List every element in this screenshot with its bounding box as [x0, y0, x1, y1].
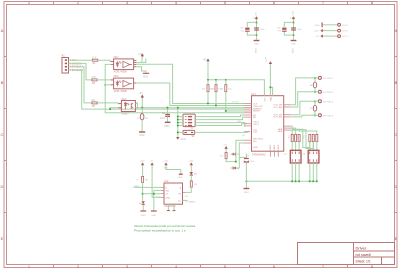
svg-text:TA8435H/Q: TA8435H/Q — [252, 153, 266, 157]
svg-text:GND: GND — [253, 147, 258, 149]
svg-text:GND: GND — [291, 44, 296, 46]
svg-text:C7: C7 — [247, 156, 251, 158]
led D4 — [139, 201, 145, 205]
svg-text:+V_PANEL: +V_PANEL — [185, 200, 197, 203]
svg-text:B: B — [395, 80, 398, 85]
svg-text:E: E — [395, 236, 398, 241]
svg-text:+5V: +5V — [255, 12, 257, 16]
svg-text:GNDP: GNDP — [270, 144, 272, 150]
svg-text:1/1: 1/1 — [366, 260, 371, 264]
wire OUT_BP to motor3 — [291, 101, 318, 114]
svg-text:GND: GND — [178, 177, 183, 179]
frame row letters left — [1, 28, 4, 241]
svg-text:VB: VB — [310, 108, 313, 110]
junction col2 node — [153, 193, 155, 195]
svg-text:D5: D5 — [194, 174, 198, 176]
junction at R2 branch — [104, 84, 106, 86]
wire D2 to MO wire — [236, 167, 239, 169]
wire MO down right to cap — [239, 156, 246, 158]
svg-text:+24V: +24V — [163, 161, 169, 163]
diode D5 — [190, 165, 198, 175]
svg-text:100u: 100u — [250, 161, 256, 163]
svg-text:B: B — [1, 80, 4, 85]
svg-text:EN: EN — [92, 99, 96, 102]
svg-text:GND: GND — [139, 134, 145, 137]
+24V arrow left — [320, 29, 323, 32]
svg-text:GNDP: GNDP — [274, 144, 276, 150]
svg-text:+5V: +5V — [203, 60, 208, 62]
svg-text:MO: MO — [253, 141, 257, 143]
wire R2 out corner down — [97, 79, 114, 81]
svg-text:GND: GND — [255, 48, 257, 53]
IC1 bottom pin names — [270, 144, 280, 150]
svg-text:Obvod znizovania prudu pri nec: Obvod znizovania prudu pri necinnosti mo… — [134, 224, 196, 228]
svg-text:+5V: +5V — [150, 161, 154, 163]
svg-text:100n: 100n — [160, 118, 166, 120]
wire OK1 gnd — [136, 67, 146, 73]
junction S2 left — [177, 132, 179, 134]
wire PROTECT up to IC — [236, 140, 244, 161]
svg-text:R4: R4 — [202, 89, 206, 91]
svg-text:OUT_AM: OUT_AM — [273, 106, 282, 109]
down arrow supply at switch common — [176, 137, 186, 141]
svg-text:+5V: +5V — [252, 18, 256, 20]
pin header JP1 — [314, 23, 349, 39]
supply circuit 1: +5V with caps C3 C4 — [241, 12, 266, 53]
ground below D4 — [140, 211, 146, 217]
svg-text:M2: M2 — [253, 117, 257, 119]
switch S2 — [183, 130, 195, 138]
svg-text:10k: 10k — [228, 89, 232, 91]
supply arrow above OK3 — [139, 93, 145, 99]
junction R5 top — [215, 79, 217, 81]
frame column numbers top — [28, 0, 374, 5]
IC1 top pins — [264, 89, 272, 96]
wire OK1 vcc to arrow — [141, 57, 143, 62]
wire arrow to OK3 output node — [141, 98, 143, 107]
ground below bus — [244, 189, 250, 195]
svg-text:ACPL-W50K: ACPL-W50K — [114, 71, 128, 74]
svg-text:R6: R6 — [220, 89, 224, 91]
svg-text:0R5: 0R5 — [304, 135, 306, 138]
wire node to IC2 — [143, 193, 161, 195]
motor pin 1 — [318, 76, 321, 79]
IC2 regulator box — [164, 180, 183, 208]
sense resistor run NFA — [291, 126, 292, 130]
ground below D3 — [139, 132, 145, 137]
resistor R6 — [220, 80, 244, 112]
svg-text:C8: C8 — [242, 135, 246, 137]
pin circle 1 — [338, 35, 341, 38]
svg-text:T1: T1 — [284, 154, 287, 156]
wire MO up to IC — [239, 143, 244, 168]
run to group B — [292, 129, 310, 147]
diode D1 — [231, 153, 241, 156]
svg-text:+24V: +24V — [314, 31, 320, 33]
wire gnd pin — [323, 24, 338, 26]
IC2 right pins — [183, 192, 186, 200]
optocoupler OK1 — [111, 56, 137, 74]
svg-text:0R5: 0R5 — [289, 135, 291, 138]
svg-text:1k: 1k — [136, 180, 139, 182]
wire OK3 output long — [135, 107, 244, 109]
svg-text:RESET: RESET — [253, 111, 261, 113]
resistor R4 — [202, 80, 215, 104]
svg-text:D: D — [1, 184, 4, 189]
svg-text:R9: R9 — [194, 184, 198, 186]
svg-text:GNDS: GNDS — [278, 144, 280, 150]
wire OK2 output long — [136, 83, 244, 106]
svg-text:T2: T2 — [303, 154, 306, 156]
wire OUT_AM to motor2 — [291, 92, 318, 107]
svg-text:OK3: OK3 — [121, 98, 127, 101]
IC2 pin labels — [166, 186, 182, 202]
svg-text:CLK: CLK — [92, 56, 97, 59]
supply arrow above IC — [269, 61, 272, 64]
svg-text:Sheet:: Sheet: — [356, 260, 366, 264]
svg-text:47u: 47u — [241, 30, 245, 32]
pin circle 2 — [338, 29, 341, 32]
svg-text:OUT_BM: OUT_BM — [273, 117, 282, 119]
wire S2 left pin — [178, 131, 183, 133]
wire R1 to opto1 — [98, 60, 113, 61]
small gnd symbol right — [178, 170, 183, 180]
wire p3 down to R3 — [69, 67, 92, 103]
svg-text:100n: 100n — [260, 29, 266, 31]
svg-text:GND: GND — [151, 215, 156, 217]
diode D2 — [231, 167, 241, 170]
frame row ticks left and right — [4, 57, 397, 213]
wire D4 to gnd — [142, 205, 144, 211]
IC1 box — [252, 96, 284, 152]
cap C4 — [254, 27, 259, 29]
wire arrow to rail — [207, 61, 209, 79]
junction OK3 node — [141, 107, 143, 109]
svg-text:X1: X1 — [62, 54, 66, 58]
wire S2 right to IC — [195, 131, 250, 134]
svg-text:A: A — [180, 186, 182, 189]
supply circuit 2: +24V with caps C5 C6 — [278, 10, 303, 53]
ground 2 — [151, 211, 157, 217]
svg-text:TQ2: TQ2 — [253, 132, 258, 134]
svg-text:R1: R1 — [93, 63, 97, 65]
junction bottom — [256, 34, 258, 36]
svg-text:+5V: +5V — [138, 54, 143, 56]
IC1 right pin labels — [273, 104, 283, 134]
frame row letters right — [395, 28, 398, 241]
svg-text:+5V: +5V — [139, 93, 144, 95]
supply arrow A3 — [163, 161, 169, 170]
wire p2 down — [69, 63, 92, 80]
svg-text:S2: S2 — [192, 136, 196, 138]
svg-text:C: C — [395, 132, 398, 137]
wire IC2 gnd pin — [157, 196, 161, 198]
svg-text:A: A — [395, 28, 398, 33]
svg-text:OSC: OSC — [237, 121, 242, 123]
svg-text:R3: R3 — [92, 106, 96, 108]
vertical common wire for switch — [177, 108, 179, 137]
wire net label to IC2 — [134, 186, 161, 188]
svg-text:FB: FB — [178, 193, 181, 195]
junction C2 tap on opto2 wire — [167, 107, 169, 109]
optocoupler OK3 — [119, 98, 138, 116]
svg-text:OK2: OK2 — [114, 75, 120, 78]
wires S1 left pins to common — [178, 117, 183, 126]
wire D3 to ground — [141, 120, 143, 131]
supply arrow +5V rail — [203, 58, 210, 61]
svg-text:D: D — [395, 184, 398, 189]
motor pin 2 — [318, 90, 321, 93]
svg-text:R8: R8 — [145, 180, 149, 182]
wires S1 right pins to IC — [195, 115, 245, 126]
wire arrow1 down to R8 — [142, 165, 144, 176]
svg-text:+24V: +24V — [188, 161, 194, 163]
sense resistors group A — [291, 130, 300, 150]
IC1 top pin names — [264, 97, 272, 102]
cap C3 branch — [247, 22, 256, 27]
svg-text:JP1-1: JP1-1 — [342, 36, 348, 38]
svg-text:IC2: IC2 — [165, 180, 170, 183]
resistor R7 — [220, 149, 236, 162]
wire arrow3 down — [166, 165, 181, 169]
wire OUT_BM to motor4 — [291, 115, 318, 117]
wire down to bottom run — [105, 64, 244, 112]
IC2 left pins — [161, 187, 164, 197]
ground bus — [246, 180, 316, 182]
ground below OK1 — [143, 73, 150, 78]
svg-text:1k2: 1k2 — [185, 196, 189, 198]
wire arrow2 down to IC2 — [152, 165, 161, 197]
wire p4 down to opto3 cathode — [69, 70, 245, 109]
svg-text:C: C — [1, 132, 4, 137]
IC2 out stub label — [183, 199, 188, 201]
junction top — [256, 22, 258, 24]
wires to IC1 top pins — [226, 80, 265, 96]
transistor block T1 — [284, 150, 301, 163]
frame column numbers bottom — [28, 264, 374, 269]
svg-text:Pri pouzitych suciastkach je t: Pri pouzitych suciastkach je to cca. 1 s… — [134, 228, 186, 232]
motor pin 4 — [318, 114, 321, 117]
svg-text:A: A — [1, 28, 4, 33]
optocoupler OK2 — [111, 75, 137, 93]
resistor R3 — [92, 99, 98, 108]
junction protect — [235, 161, 237, 163]
svg-text:CII: CII — [166, 193, 169, 195]
svg-text:JP1-2: JP1-2 — [342, 31, 348, 33]
svg-text:SW: SW — [166, 190, 169, 192]
wire OK3 vcc pin — [135, 103, 137, 108]
svg-text:47k: 47k — [220, 156, 224, 158]
svg-text:VMA: VMA — [269, 97, 272, 102]
wire to opto2 anode — [105, 84, 113, 86]
wire IC gnd pin down — [245, 154, 247, 159]
svg-text:C3: C3 — [241, 28, 245, 30]
svg-text:GND: GND — [244, 192, 249, 194]
junction p4 run — [109, 108, 111, 110]
wire OK1 output long — [136, 64, 244, 103]
wire col2 S-branch — [154, 190, 161, 210]
IC1 right pins — [284, 105, 292, 130]
dip switch S1 — [183, 114, 195, 130]
sense resistors group B — [309, 134, 318, 150]
supply arrow A1 left — [140, 161, 146, 166]
supply arrow above R7 — [223, 144, 228, 149]
wire OUT_AP to motor1 — [291, 78, 318, 105]
svg-text:GND: GND — [164, 125, 170, 128]
transistor block T2 — [303, 150, 319, 163]
capacitor C2 — [160, 108, 170, 122]
svg-text:GND: GND — [181, 139, 186, 141]
svg-text:+5V: +5V — [223, 144, 227, 146]
svg-text:47u: 47u — [278, 30, 282, 32]
svg-text:C5: C5 — [278, 28, 282, 30]
svg-text:+24V: +24V — [140, 161, 146, 163]
junction R8 node — [142, 193, 144, 195]
svg-text:JP1-3: JP1-3 — [342, 25, 348, 27]
X1 pin labels — [70, 60, 84, 72]
junction R6 top — [225, 79, 227, 81]
supply arrow above OK1 — [138, 53, 144, 57]
svg-text:MOTOR-3: MOTOR-3 — [323, 101, 334, 103]
pin circle 3 — [338, 23, 341, 26]
svg-text:VCC: VCC — [264, 97, 266, 102]
wire R8 down — [142, 182, 144, 200]
svg-text:100n: 100n — [297, 29, 303, 31]
+5V arrow left — [320, 34, 323, 37]
resistor R2 — [92, 76, 98, 85]
resistor R1 — [92, 56, 98, 65]
svg-text:E: E — [1, 236, 4, 241]
svg-text:+24V: +24V — [266, 56, 268, 62]
svg-text:MOTOR-1: MOTOR-1 — [323, 78, 334, 80]
svg-text:not saved!: not saved! — [356, 253, 372, 257]
svg-text:. . .: . . . — [309, 166, 312, 168]
resistor R5 — [211, 80, 223, 106]
svg-text:+24V: +24V — [292, 10, 294, 16]
varistor R21 across pair B — [310, 101, 317, 117]
IC2 bottom pin wires — [167, 204, 169, 210]
resistor R8 — [136, 176, 148, 182]
svg-text:4k7: 4k7 — [145, 118, 149, 120]
svg-text:R: R — [137, 118, 139, 120]
bus junctions — [246, 181, 318, 183]
wire R9 to IC2 right pin — [186, 187, 192, 192]
svg-text:GND: GND — [315, 25, 320, 27]
svg-text:B: B — [166, 187, 168, 189]
svg-text:OK1: OK1 — [114, 56, 120, 59]
wire bus down to ground — [245, 181, 247, 188]
svg-text:Driver: Driver — [356, 246, 367, 251]
IC1 bottom pins — [271, 151, 279, 157]
svg-text:IC1: IC1 — [252, 92, 257, 96]
diode D3 ellipse — [137, 114, 149, 121]
ground — [254, 40, 260, 42]
varistor R20 across pair A — [310, 77, 317, 93]
connector X1 — [62, 54, 69, 74]
wire arrow down to gnd — [256, 19, 258, 40]
right column: arrow4 — [188, 161, 194, 166]
wire p1 to R1 — [69, 59, 93, 61]
junction top pin pair — [270, 87, 272, 89]
svg-text:+5V: +5V — [316, 36, 320, 38]
svg-text:VA: VA — [310, 84, 313, 87]
ground below C2 — [164, 122, 170, 128]
svg-text:GND: GND — [143, 75, 149, 78]
supply arrow A2 — [150, 161, 154, 166]
svg-text:GND: GND — [254, 44, 259, 46]
resistor R9 — [190, 175, 197, 187]
svg-text:NFB: NFB — [278, 131, 283, 133]
IC1 left pin labels — [253, 104, 264, 150]
svg-text:PC817: PC817 — [121, 112, 129, 115]
wires T1 bottom to bus — [292, 163, 317, 181]
svg-text:DC: DC — [178, 200, 182, 202]
electrolytic cap C7 — [244, 156, 256, 181]
wire R3 to opto3 anode — [98, 102, 122, 105]
IC1 left pins — [244, 104, 252, 144]
rail wire — [208, 79, 226, 81]
svg-text:D1: D1 — [237, 154, 241, 156]
frame column ticks top — [54, 2, 348, 5]
title block box — [298, 243, 395, 265]
svg-text:GND: GND — [166, 197, 171, 199]
svg-text:MOTOR-4: MOTOR-4 — [323, 115, 334, 117]
svg-text:5V-CLK: 5V-CLK — [232, 101, 240, 103]
junction R4 top — [207, 79, 209, 81]
electrolytic cap C3 — [245, 28, 249, 30]
svg-text:GND: GND — [292, 48, 294, 53]
supply arrow — [255, 16, 258, 19]
wire node down to D3 — [141, 108, 143, 114]
svg-text:. . .: . . . — [292, 166, 295, 168]
svg-text:S1: S1 — [191, 128, 195, 130]
svg-text:R2: R2 — [92, 83, 96, 85]
svg-text:GND: GND — [141, 215, 146, 217]
svg-text:ACPL-W50K: ACPL-W50K — [114, 90, 128, 93]
gnd bar symbol — [321, 23, 323, 28]
svg-text:MOTOR-2: MOTOR-2 — [323, 92, 334, 94]
svg-text:OSC2: OSC2 — [253, 124, 260, 126]
motor pin 3 — [318, 100, 321, 103]
frame column ticks bottom — [54, 265, 348, 268]
junctions on common wire — [177, 116, 179, 127]
